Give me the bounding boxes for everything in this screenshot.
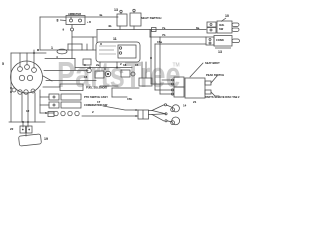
svg-text:COMBINATION SW: COMBINATION SW (84, 103, 108, 107)
wire fuel solenoid lead (43, 86, 60, 88)
svg-text:15b: 15b (127, 97, 132, 101)
module text row 1 (99, 45, 116, 47)
watermark PartsTree (57, 54, 181, 95)
svg-text:13: 13 (218, 50, 222, 54)
wire engine stub 3 (33, 50, 35, 68)
wire module drop a (141, 62, 143, 78)
wire module pin drop 1 (99, 62, 101, 68)
mid connector box (139, 78, 152, 86)
wire seat pin drop 1 (119, 26, 121, 30)
seat switch pin 2 stub (133, 12, 135, 14)
wire fan 4 (152, 113, 166, 116)
svg-text:16: 16 (84, 75, 88, 79)
key row1 small box (49, 94, 59, 100)
neutral pin 1 (171, 79, 173, 81)
relay pin 2 (119, 52, 121, 54)
wire bulb lead bottom (167, 121, 172, 122)
wire diag small (43, 76, 52, 81)
headlight bulb 1 (172, 105, 179, 112)
svg-text:CONN: CONN (216, 38, 224, 42)
svg-text:7b: 7b (162, 33, 166, 37)
wire eyelet feed (40, 112, 54, 114)
wire y58 (45, 58, 75, 60)
seat switch box 1 (117, 14, 127, 26)
lower pin circle a (209, 39, 211, 41)
key row1 box (61, 94, 81, 100)
wire leader neutral text (190, 63, 203, 77)
svg-text:15a: 15a (157, 40, 162, 44)
battery (19, 134, 42, 146)
eyelet row 2 (61, 111, 65, 115)
wire x155 vertical (154, 44, 156, 90)
wire y67 cluster bus (75, 67, 132, 69)
eyelet row 4 (75, 111, 79, 115)
wire x72 drop (71, 31, 73, 59)
wire left col v4 (39, 90, 41, 113)
neutral pin 3 (171, 89, 173, 91)
svg-text:5: 5 (2, 62, 4, 66)
wire left col v1 (21, 93, 23, 122)
wire headlight B (82, 115, 138, 117)
svg-text:AMMETER: AMMETER (68, 12, 81, 16)
eyelet row 3 (68, 111, 72, 115)
engine terminal 3 (32, 68, 37, 73)
wire headlight A out (149, 110, 153, 112)
ignition pin block upper a (207, 22, 216, 27)
resistor oval (57, 49, 67, 54)
wire cluster y84 (151, 83, 173, 85)
eyelet row terminal box (48, 112, 54, 117)
wire x75 drop (74, 59, 76, 71)
headlight terminal 1 (164, 104, 166, 106)
svg-text:SEAT BRKT: SEAT BRKT (205, 61, 220, 65)
wire x151 vertical (150, 30, 152, 85)
module text row 3 (99, 53, 116, 55)
svg-text:15: 15 (135, 63, 139, 67)
neutral switch tab 2 (205, 90, 211, 94)
wire tab1 lead (211, 76, 217, 83)
engine terminal 1 (18, 67, 23, 72)
cluster eyelet right (131, 72, 135, 76)
engine lower eyelet 2 (18, 90, 22, 94)
headlight terminal mid (165, 113, 167, 115)
wire key row 1 lead (40, 96, 49, 98)
wire y80 (46, 80, 96, 82)
svg-text:18: 18 (123, 63, 127, 67)
wire y37 left branch (72, 36, 96, 38)
engine circle (11, 61, 43, 93)
svg-text:11: 11 (113, 37, 117, 41)
svg-text:+ B: + B (87, 21, 91, 24)
ignition bullet 2 (232, 28, 239, 31)
starter solenoid dot a (22, 129, 24, 131)
inline connector box (138, 110, 149, 119)
engine lower eyelet 1 (12, 88, 16, 92)
cluster box 0 (83, 59, 91, 65)
starter solenoid dot b (28, 129, 30, 131)
wire left drop from top (39, 17, 41, 50)
wire key row 2 lead (40, 104, 49, 106)
wire x160 vertical (159, 37, 161, 94)
wire y86 short (100, 85, 118, 87)
key row2 box (61, 102, 81, 108)
neutral pin 2 (171, 83, 173, 85)
wire cluster y80 (162, 79, 173, 81)
wire stub x93 (92, 37, 94, 50)
ammeter terminal 2 (79, 19, 82, 22)
lower connector bullet (232, 39, 240, 43)
engine lower eyelet 4 (31, 89, 35, 93)
wire module top drop (96, 30, 98, 43)
module text row 2 (99, 49, 114, 51)
neutral switch connector a (174, 77, 184, 87)
ammeter lead 8 (60, 19, 66, 22)
ignition switch box (217, 21, 232, 33)
wire y44 short (68, 43, 82, 45)
key row1 dot (53, 96, 55, 98)
wire fan 3 (152, 115, 164, 122)
svg-text:PEAK SWITCH: PEAK SWITCH (206, 73, 224, 77)
engine terminal 2 (25, 65, 30, 70)
svg-text:22: 22 (10, 127, 14, 131)
interlock module box (96, 42, 140, 62)
wire y44 to connector (155, 43, 206, 45)
svg-text:PTO SWITCH ASSY: PTO SWITCH ASSY (84, 95, 108, 99)
svg-text:12: 12 (26, 109, 30, 113)
wire battery bus y122 (9, 121, 45, 123)
wire tab2 lead (211, 92, 219, 96)
ammeter box A (66, 16, 85, 25)
wire bulb lead top (167, 105, 173, 107)
wire engine stub 2 (26, 53, 28, 65)
wire solenoid drop 1 (22, 122, 24, 127)
ignition bullet 1 (232, 23, 239, 26)
engine terminal 4 (19, 75, 24, 80)
svg-text:SW: SW (219, 27, 224, 31)
wire x68 stub (67, 44, 69, 50)
junction dots (10, 43, 152, 123)
wire module drop b (145, 62, 147, 78)
engine terminal 5 (27, 75, 32, 80)
cluster circle mid (105, 71, 111, 77)
cluster circle mid dot (107, 73, 109, 75)
wire left col v2 (27, 93, 29, 122)
neutral pin 4 (171, 93, 173, 95)
wire battery lead (25, 133, 27, 136)
label 10 arrow (221, 18, 226, 22)
wire seat switch return y29.5 (97, 29, 206, 31)
svg-text:8a: 8a (196, 26, 200, 30)
seat switch pin 1 (120, 10, 122, 12)
wire ammeter drop (70, 17, 72, 19)
wire cluster y90 (155, 89, 173, 91)
wire top horizontal (40, 16, 118, 18)
wire y97 mid (112, 96, 127, 98)
interlock relay inner box (118, 45, 136, 58)
lower connector box (214, 36, 232, 47)
seat switch box 2 (130, 13, 141, 26)
cluster box 2 (121, 70, 130, 77)
svg-text:PartsTree: PartsTree (57, 54, 181, 95)
svg-text:FUEL SOLENOID: FUEL SOLENOID (86, 86, 107, 90)
wire left col v3 (34, 93, 36, 122)
engine lower eyelet 3 (24, 90, 28, 94)
wire branch x150 (149, 30, 151, 38)
wire stub x87 (86, 44, 88, 50)
ignition pin block upper b (207, 28, 216, 34)
starter solenoid box a (20, 126, 26, 133)
svg-text:19: 19 (44, 137, 48, 141)
svg-text:21: 21 (193, 100, 197, 104)
ignition pin circle a (210, 24, 212, 26)
wire solenoid drop 2 (27, 122, 29, 127)
wire x112 drop (111, 88, 113, 97)
svg-text:13: 13 (114, 8, 118, 12)
seat switch pin 1 stub (120, 13, 122, 15)
wire headlight A (103, 106, 138, 110)
lower connector underline (215, 47, 231, 49)
headlight bulb 2 (172, 117, 180, 125)
wire headlight B out (149, 114, 153, 116)
svg-text:PARTS SLEEVE DISC TAB 2: PARTS SLEEVE DISC TAB 2 (205, 95, 240, 99)
ammeter terminal 1 (70, 19, 73, 22)
wire y37 to connector (150, 36, 206, 38)
wire y88 mid (112, 87, 139, 89)
svg-text:8: 8 (57, 19, 59, 23)
inline connector divider (142, 110, 144, 119)
key row2 small box (49, 102, 59, 108)
seat switch pin 2 (133, 9, 135, 11)
wire y50 to module (40, 49, 96, 51)
svg-text:14: 14 (183, 104, 187, 108)
svg-text:2a: 2a (96, 63, 100, 67)
relay pin 1 (119, 47, 121, 49)
starter solenoid box b (27, 126, 33, 133)
eyelet row 1 (54, 111, 58, 115)
svg-text:4b: 4b (108, 24, 112, 28)
svg-text:IGN.: IGN. (219, 23, 225, 27)
neutral switch tab 1 (205, 81, 211, 85)
svg-text:TM: TM (173, 63, 180, 69)
wire seat pin drop 2 (133, 26, 135, 30)
key row2 dot (53, 104, 55, 106)
wire cluster y94 (160, 93, 173, 95)
wire module pin drop 2 (116, 62, 118, 68)
ignition pin circle b (210, 29, 212, 31)
fuel solenoid box (60, 84, 83, 91)
wire y53 left (11, 52, 46, 54)
cluster eyelet left (87, 68, 92, 73)
wire fan 2 (152, 111, 166, 114)
neutral switch connector b (174, 87, 184, 97)
wire y71 (44, 70, 88, 72)
svg-text:10: 10 (225, 14, 229, 18)
wire left main vertical (10, 53, 12, 122)
lower pin circle b (209, 42, 211, 44)
wire fan 1 (152, 105, 164, 111)
wire stub x82 (81, 44, 83, 50)
headlight terminal 2 (165, 120, 167, 122)
cluster box 1 (95, 71, 104, 78)
lower connector pin block (206, 37, 214, 45)
headlight socket 1 (171, 108, 175, 112)
headlight socket 2 (171, 121, 175, 125)
svg-text:4a: 4a (99, 13, 103, 17)
ammeter stub (71, 25, 73, 29)
svg-text:SEAT SWITCH: SEAT SWITCH (141, 16, 161, 20)
neutral switch body (185, 78, 205, 98)
svg-text:7a: 7a (162, 26, 166, 30)
svg-text:1: 1 (51, 46, 53, 50)
wire tag on return (152, 28, 157, 32)
wire engine stub 1 (19, 53, 21, 67)
ammeter eyelet (71, 28, 74, 31)
